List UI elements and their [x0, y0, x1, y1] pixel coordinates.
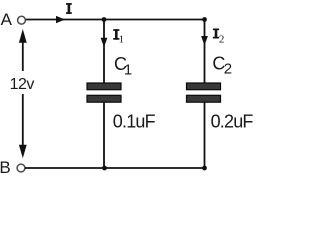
- source 12v double arrow: [19, 29, 27, 158]
- node junction top-left: [102, 17, 107, 22]
- svg-text:0.1uF: 0.1uF: [113, 112, 156, 132]
- svg-text:A: A: [1, 10, 13, 29]
- label I1: [113, 29, 124, 45]
- svg-text:2: 2: [224, 61, 232, 78]
- svg-text:0.2uF: 0.2uF: [211, 111, 254, 131]
- node junction top-right: [202, 17, 207, 22]
- svg-text:12v: 12v: [10, 76, 35, 93]
- svg-text:2: 2: [219, 34, 225, 46]
- label I: [66, 3, 72, 14]
- svg-text:1: 1: [124, 62, 132, 79]
- node junction bottom-left: [102, 166, 107, 171]
- node junction bottom-right: [202, 166, 207, 171]
- wire branch2 upper: [204, 20, 206, 84]
- wire branch1 upper: [103, 20, 105, 84]
- current arrow I2: [201, 36, 208, 45]
- terminal B: [17, 164, 25, 172]
- label C1: [114, 54, 132, 79]
- current arrow I1: [101, 38, 108, 47]
- wire branch1 lower: [103, 102, 105, 168]
- current arrow I: [56, 16, 65, 23]
- capacitor C2: [187, 83, 221, 102]
- terminal A: [18, 16, 26, 24]
- svg-text:B: B: [0, 158, 11, 177]
- wire branch2 lower: [204, 102, 206, 168]
- svg-text:1: 1: [119, 34, 125, 46]
- wire top rail: [26, 19, 205, 21]
- label I2: [213, 29, 225, 46]
- capacitor C1: [87, 83, 121, 102]
- label C2: [212, 54, 232, 78]
- wire bottom rail: [25, 167, 205, 169]
